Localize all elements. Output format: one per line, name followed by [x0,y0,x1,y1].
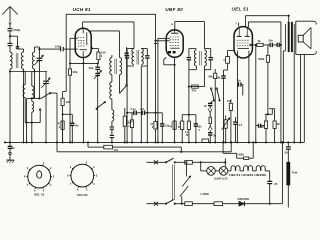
svg-text:30n: 30n [140,108,145,111]
svg-text:UCH 81: UCH 81 [77,193,88,197]
svg-text:10n: 10n [268,39,273,43]
svg-text:1M: 1M [276,124,279,126]
svg-text:100n: 100n [55,44,61,48]
svg-text:0,1µ: 0,1µ [131,108,136,111]
svg-text:47k: 47k [192,89,197,93]
svg-text:M: M [178,127,180,129]
svg-text:0,5: 0,5 [239,123,243,127]
svg-text:5n: 5n [204,104,207,108]
svg-text:47k: 47k [114,148,119,152]
svg-text:Feld: Feld [292,171,298,175]
svg-text:2n: 2n [12,146,15,150]
svg-text:500k: 500k [258,57,264,61]
svg-text:U950: U950 [238,153,245,157]
svg-text:50p: 50p [89,66,94,70]
svg-text:UEL51 UCH81 UBF80: UEL51 UCH81 UBF80 [229,173,267,177]
svg-text:50: 50 [285,150,288,154]
svg-text:500p: 500p [14,28,21,32]
svg-text:10n: 10n [237,80,242,83]
svg-text:UCH 81: UCH 81 [73,7,91,12]
svg-text:8n: 8n [75,123,79,127]
svg-text:2x19V 0,1A: 2x19V 0,1A [214,178,228,181]
svg-text:10k: 10k [227,100,232,103]
svg-text:M: M [186,135,188,137]
svg-text:25: 25 [274,182,277,186]
svg-text:M: M [170,127,172,129]
svg-text:0,5M: 0,5M [258,126,264,129]
svg-text:U 9050: U 9050 [201,192,210,196]
svg-text:20k: 20k [73,70,78,74]
svg-text:UBF 80: UBF 80 [165,7,183,12]
svg-text:UEL 51: UEL 51 [232,7,249,12]
svg-text:240V/300: 240V/300 [238,197,250,201]
svg-text:60k: 60k [208,74,213,78]
svg-text:UEL 51: UEL 51 [34,193,45,197]
